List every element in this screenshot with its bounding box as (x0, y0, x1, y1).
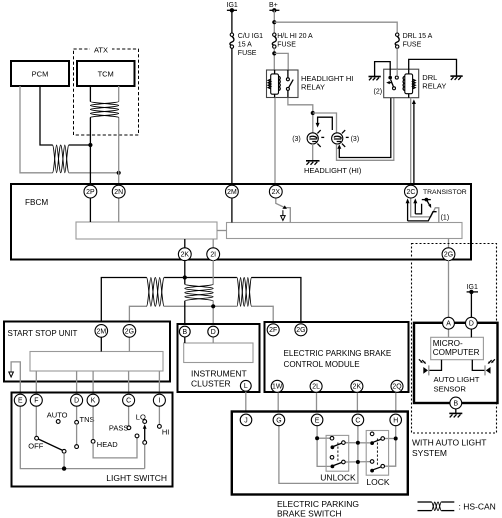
wire: bar to 2K (black) (184, 239, 186, 249)
wire: bar to I (gray) (158, 371, 160, 395)
svg-text:TRANSISTOR: TRANSISTOR (423, 189, 467, 196)
wire: DRL coil to FBCM 2C (gray) (410, 98, 412, 185)
label HEADLIGHT HI RELAY (301, 74, 353, 92)
svg-text:IG1: IG1 (227, 2, 238, 9)
contact PASS (127, 426, 131, 430)
twisted pair PCM (53, 145, 69, 173)
PCM box (11, 61, 69, 86)
relay switch contacts (286, 70, 293, 98)
svg-text:E: E (18, 398, 23, 405)
wire: bar to C (gray) (128, 371, 130, 395)
wire: B+ down to H/L fuse (gray) (273, 10, 275, 33)
terminal 2X (269, 185, 282, 198)
svg-text:E: E (315, 417, 320, 424)
terminal F (30, 394, 42, 406)
node: IG1 supply (227, 2, 238, 13)
svg-text:(1): (1) (441, 215, 450, 222)
terminal 2K EPB (351, 380, 363, 392)
wire: SSU 2G to bar (gray) (128, 334, 130, 352)
wire: TNS lower segment (gray) (76, 424, 78, 445)
photodiode left (419, 359, 442, 375)
wire: D to TNS contact (gray) (76, 404, 78, 420)
wire: D to microcomputer (black) (470, 329, 472, 338)
flow arrow path to bulb 1 (316, 117, 333, 131)
wire: 2X sensing branch (gray) (276, 194, 291, 223)
svg-text:2L: 2L (312, 384, 320, 391)
ground: DRL relay right (450, 76, 462, 80)
label INSTRUMENT CLUSTER (191, 369, 247, 389)
svg-text:2X: 2X (272, 189, 281, 196)
terminal 2M (226, 185, 239, 198)
svg-text:WITH AUTO LIGHT: WITH AUTO LIGHT (412, 438, 486, 448)
terminal 2G EPB (295, 324, 307, 336)
wire: bar to 2I (gray) (212, 239, 214, 249)
switch lever right with arrow (143, 424, 147, 468)
DRL relay coil with resistor (403, 69, 415, 98)
svg-text:ELECTRIC PARKING BRAKE: ELECTRIC PARKING BRAKE (284, 349, 392, 358)
svg-text:B+: B+ (269, 2, 278, 9)
svg-text:D: D (74, 398, 79, 405)
svg-text:SENSOR: SENSOR (434, 385, 467, 394)
MICRO-COMPUTER box (431, 337, 484, 359)
LIGHT SWITCH box (12, 393, 173, 487)
svg-text:ELECTRIC PARKING: ELECTRIC PARKING (277, 499, 359, 509)
lamp: headlight bulb 1 (292, 130, 324, 147)
svg-text:2Q: 2Q (392, 384, 402, 391)
EPB switch box (232, 412, 408, 495)
svg-text:DRL 15 A: DRL 15 A (403, 33, 433, 40)
wire: bulb 2 return to DRL relay (gray) (337, 98, 394, 161)
wire: K to HEAD contact (gray) (92, 404, 94, 440)
svg-text:2N: 2N (114, 189, 123, 196)
wire: HEAD to right lever pivot (gray) (93, 438, 137, 458)
wire: E to unlock top contact (gray) (317, 437, 330, 439)
contact right pivot (135, 434, 139, 438)
svg-text:2G: 2G (444, 252, 453, 259)
svg-text:HI: HI (162, 427, 170, 436)
svg-text:LO: LO (136, 413, 146, 422)
terminal I (153, 394, 165, 406)
wire: 2M to bar (black) (231, 194, 233, 223)
svg-text:B: B (453, 400, 458, 407)
wire: DRL coil to ground (black) (409, 59, 457, 75)
svg-text:TCM: TCM (98, 70, 114, 79)
svg-text:A: A (446, 321, 451, 328)
UNLOCK switch unit (326, 435, 349, 471)
svg-text:F: F (34, 398, 38, 405)
terminal 2P (84, 185, 97, 198)
START STOP UNIT box (4, 322, 170, 382)
relay: DRL RELAY box (384, 69, 419, 98)
wire: E input arrow inside SSU (gray) (9, 362, 20, 395)
node: CAN-L junction at 2I (211, 304, 215, 308)
terminal G (273, 414, 285, 426)
svg-text:COMPUTER: COMPUTER (433, 348, 480, 357)
svg-text:FBCM: FBCM (25, 198, 48, 207)
terminal 2L (310, 380, 322, 392)
svg-text:2G: 2G (296, 327, 305, 334)
wire: G run (gray) (279, 426, 358, 484)
wire: D to bar (gray) (212, 334, 214, 343)
label AUTO LIGHT SENSOR (434, 375, 480, 394)
svg-text:: HS-CAN: : HS-CAN (459, 502, 496, 512)
wire: B+ into DRL switch (gray) (396, 69, 398, 76)
node: relay feed junction (272, 51, 276, 55)
terminal H switch (390, 414, 402, 426)
svg-text:2I: 2I (210, 252, 216, 259)
terminal 2C (405, 185, 418, 198)
svg-text:B: B (182, 329, 187, 336)
svg-text:PASS: PASS (109, 424, 128, 433)
terminal 2G FBCM (442, 248, 455, 261)
photodiode right (472, 359, 495, 375)
terminal J (240, 414, 252, 426)
ground: DRL relay left (369, 77, 381, 81)
terminal C switch (352, 414, 364, 426)
switch lever left (38, 439, 66, 469)
node: H junction (394, 437, 398, 441)
svg-text:START STOP UNIT: START STOP UNIT (8, 329, 78, 338)
wire: C run (gray) (357, 426, 359, 462)
wire: 1W to G (gray) (277, 390, 279, 416)
ground: headlight (306, 161, 320, 165)
terminal B sensor (450, 397, 462, 409)
wire: F to OFF contact (gray) (35, 404, 37, 436)
svg-text:G: G (276, 417, 281, 424)
wire: bar to D (gray) (76, 371, 78, 395)
wire: TCM left to 2P (black) (89, 86, 91, 185)
svg-text:INSTRUMENT: INSTRUMENT (191, 369, 247, 379)
svg-text:PCM: PCM (32, 70, 49, 79)
wire: 2P to bar (black) (89, 194, 91, 222)
svg-text:H: H (393, 417, 398, 424)
wire: C stub to unlock pole2 (gray) (345, 461, 370, 463)
terminal E (14, 394, 26, 406)
wire: bar to K (gray) (92, 371, 94, 395)
svg-text:C: C (126, 398, 131, 405)
node: CAN-L junction (117, 171, 121, 175)
wire: TCM right to 2N (gray) (118, 86, 120, 185)
EPB control module box (265, 322, 409, 392)
svg-text:OFF: OFF (28, 442, 43, 451)
svg-text:CONTROL MODULE: CONTROL MODULE (284, 360, 361, 369)
flow arrow path 2C to DRL coil (412, 99, 416, 184)
svg-text:UNLOCK: UNLOCK (320, 473, 356, 483)
svg-text:K: K (91, 398, 96, 405)
FBCM box (11, 184, 471, 260)
svg-text:2G: 2G (125, 328, 134, 335)
svg-text:RELAY: RELAY (301, 83, 325, 92)
contact LO (143, 420, 147, 424)
svg-text:(3): (3) (351, 136, 360, 143)
terminal 2I (207, 248, 220, 261)
terminal SSU 2M (95, 325, 108, 338)
wire: DRL fuse to DRL relay (gray) (396, 48, 398, 70)
wire: 2I drop to cluster D (gray) (212, 260, 214, 338)
wire: C to PASS contact (gray) (128, 404, 130, 426)
twisted pair drop middle (185, 284, 213, 301)
terminal L (240, 380, 251, 391)
wire: twist to TCM-right junction (gray) (69, 172, 119, 174)
INSTRUMENT CLUSTER box (178, 324, 260, 392)
node: B+ supply (269, 2, 279, 13)
wire: I to HI contact (gray) (158, 404, 160, 425)
node: lever to E common (62, 466, 66, 470)
contact AUTO (56, 420, 60, 424)
terminal D cluster (208, 326, 219, 337)
svg-text:ATX: ATX (94, 46, 108, 55)
svg-text:(2): (2) (374, 89, 383, 96)
terminal K (87, 394, 99, 406)
wire: C stub to unlock pole1 (gray) (345, 442, 370, 444)
terminal C (123, 394, 135, 406)
wire: relay coil to FBCM 2X (gray) (274, 98, 276, 186)
svg-text:TNS: TNS (80, 415, 95, 424)
svg-text:MICRO-: MICRO- (433, 339, 463, 348)
terminal D sensor (466, 317, 478, 329)
terminal 2N (112, 185, 125, 198)
FBCM internal bus bar left (76, 222, 217, 239)
wire: E common (gray) (20, 395, 144, 469)
twisted pair TCM (90, 102, 118, 118)
wire: B+ branch to DRL fuse (gray) (274, 22, 397, 33)
contact HI (158, 425, 162, 429)
SSU internal bar (30, 352, 163, 372)
svg-text:RELAY: RELAY (422, 82, 446, 91)
svg-text:AUTO: AUTO (47, 411, 68, 420)
svg-text:(3): (3) (292, 136, 301, 143)
wire: DRL switch contact to ground (black) (375, 62, 391, 76)
terminal SSU 2G (123, 325, 136, 338)
label DRL RELAY (422, 73, 446, 91)
terminal 2F (267, 324, 279, 336)
svg-text:15 A: 15 A (238, 41, 252, 48)
node: C junction upper (356, 441, 360, 445)
node: C junction lower (356, 460, 360, 464)
wire: twist to TCM-left junction (black) (69, 144, 91, 146)
legend HS-CAN twisted pair (418, 502, 496, 512)
svg-text:LOCK: LOCK (366, 477, 389, 487)
terminal E switch (311, 414, 323, 426)
label ELECTRIC PARKING BRAKE CONTROL MODULE (284, 349, 392, 369)
wire: E run (gray) (317, 426, 331, 467)
svg-text:2M: 2M (97, 328, 107, 335)
svg-text:LIGHT SWITCH: LIGHT SWITCH (106, 473, 167, 483)
wire: branch to relay switch (gray) (274, 53, 288, 70)
wire: FBCM 2G to sensor A (gray) (448, 260, 450, 318)
TCM box (77, 61, 135, 86)
svg-text:FUSE: FUSE (403, 41, 422, 48)
terminal 1W (271, 380, 283, 392)
svg-text:2C: 2C (406, 189, 415, 196)
wire: H stub to lock pole1 (gray) (385, 438, 396, 440)
fuse C/U IG1 15A (230, 33, 263, 57)
wire: branch to bulb 2 (gray) (313, 113, 337, 133)
ATX dashed box (74, 44, 139, 135)
wire: IG1 to fuse (black) (231, 10, 233, 33)
LOCK switch unit (366, 431, 388, 476)
svg-text:BRAKE SWITCH: BRAKE SWITCH (277, 509, 342, 518)
svg-text:D: D (211, 329, 216, 336)
terminal D (71, 394, 83, 406)
wire: 2K drop to cluster B (black) (184, 260, 186, 338)
wire: fuse to FBCM 2M (black) (231, 48, 233, 185)
wire: bulb 1 to ground (gray) (312, 144, 314, 160)
contact HEAD (91, 440, 95, 444)
wire: bar to 2G (gray) (448, 239, 450, 249)
svg-text:2P: 2P (86, 189, 95, 196)
svg-text:1W: 1W (272, 384, 283, 391)
fuse H/L HI 20A (272, 33, 313, 49)
wire: A to microcomputer (gray) (448, 329, 450, 338)
wire: L to EPB switch J (gray) (245, 388, 247, 416)
terminal 2K (178, 248, 191, 261)
node: bulb feed junction (311, 111, 315, 115)
contact TNS (75, 420, 79, 424)
wire: 2K to C (gray) (356, 390, 358, 416)
node: E junction (315, 436, 319, 440)
wire: 2L to E (gray) (316, 390, 318, 416)
svg-text:J: J (244, 417, 247, 424)
svg-text:H/L HI 20 A: H/L HI 20 A (277, 33, 313, 40)
svg-text:2M: 2M (227, 189, 237, 196)
node: IG1 sensor supply (467, 284, 478, 294)
wire: B to bar (black) (184, 334, 186, 343)
svg-text:C/U IG1: C/U IG1 (238, 33, 263, 40)
svg-text:2K: 2K (181, 252, 190, 259)
terminal B (179, 326, 190, 337)
wire: relay switch to bulbs (gray) (288, 98, 313, 133)
DRL relay switch contacts (374, 76, 399, 96)
svg-text:SYSTEM: SYSTEM (412, 448, 447, 458)
FBCM internal bus bar right (227, 223, 463, 239)
IC internal bar (184, 343, 253, 363)
node: B+ branch junction (272, 20, 276, 24)
wire: IG1 to sensor D (black) (470, 292, 472, 318)
svg-text:FUSE: FUSE (277, 41, 296, 48)
fuse DRL 15A (395, 33, 432, 49)
terminal A (443, 317, 455, 329)
wire: CAN-L bus (gray) (129, 306, 273, 325)
wire: PCM CAN-H (black) (40, 86, 53, 145)
wire: B to ground (black) (455, 409, 457, 413)
twisted pair bus left (147, 278, 165, 307)
lamp: headlight bulb 2 (332, 130, 360, 147)
svg-text:CLUSTER: CLUSTER (191, 379, 231, 389)
svg-text:HEADLIGHT (HI): HEADLIGHT (HI) (304, 166, 362, 175)
terminal 2Q (391, 380, 403, 392)
contact OFF (35, 436, 39, 440)
svg-text:FUSE: FUSE (238, 50, 257, 57)
svg-text:AUTO LIGHT: AUTO LIGHT (434, 375, 480, 384)
relay U: HEADLIGHT HI RELAY box (267, 70, 299, 98)
wire: CAN-H bus (black) (101, 278, 301, 326)
relay coil with resistor (268, 70, 280, 98)
svg-text:D: D (469, 321, 474, 328)
svg-text:C: C (355, 417, 360, 424)
node: CAN-H junction (88, 143, 92, 147)
node: CAN-H junction at 2K (183, 275, 187, 279)
wire: SSU 2M to bar (black) (100, 334, 102, 352)
wire: PCM CAN-L (gray) (20, 86, 53, 173)
label WITH AUTO LIGHT SYSTEM (412, 438, 486, 459)
twisted pair bus right (237, 278, 252, 307)
dashed box WITH AUTO LIGHT SYSTEM (412, 244, 497, 434)
wire: bar to F (gray) (35, 371, 37, 395)
label ELECTRIC PARKING BRAKE SWITCH (277, 499, 359, 518)
transistor (1) inside FBCM (406, 198, 450, 223)
wire: 2Q to H (gray) (395, 390, 397, 416)
svg-text:I: I (158, 398, 160, 405)
wire: 2N to bar (gray) (118, 194, 120, 222)
wire: H/L fuse to relay coil (gray) (273, 48, 275, 70)
svg-text:2K: 2K (353, 384, 362, 391)
svg-text:2F: 2F (269, 327, 277, 334)
wire: bar link (217, 230, 227, 232)
ground: sensor (449, 413, 462, 417)
svg-text:L: L (244, 383, 248, 390)
wire: H run (gray) (385, 426, 396, 466)
svg-text:HEAD: HEAD (97, 440, 118, 449)
AUTO LIGHT SENSOR box (414, 323, 498, 403)
flow arrow path bulb 2 to DRL relay (337, 98, 391, 158)
contact TNS lower (75, 445, 79, 449)
